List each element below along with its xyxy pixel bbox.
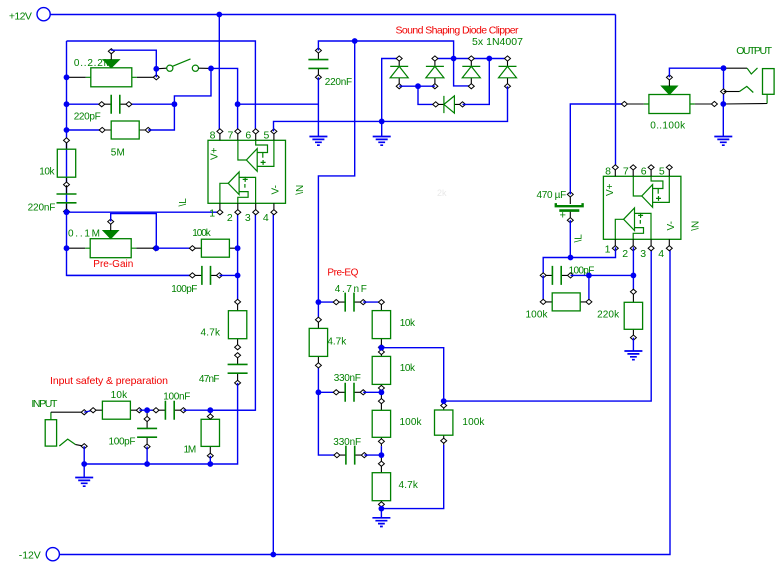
port -12V [19,548,60,562]
svg-text:100k: 100k [400,417,423,428]
capacitor 100nF input [153,392,190,420]
wire left rail [67,41,193,275]
jack INPUT [31,398,87,449]
node switch right [208,66,214,72]
node pin7 column [235,101,241,107]
wire mid node to 100k right branch [381,348,443,401]
wire 100k right drop [588,275,590,302]
resistor 4.7k pre-eq bottom [372,455,419,509]
wire 330nF1 to column [363,391,381,393]
wire 220nF bottom to pin7 node and ground [238,77,319,136]
svg-text:4.7nF: 4.7nF [335,284,367,295]
wire U2 pin2 down [632,247,634,292]
node U2 pin2 column [631,273,637,279]
wire pin1 net to 100pF left [543,258,570,276]
node feed on rail [451,56,457,62]
capacitor 4.7nF [318,284,366,312]
svg-text:47nF: 47nF [199,374,220,385]
wire clipper top rail [435,58,508,60]
port +12V [9,8,50,23]
wire 10k to node [139,409,156,411]
svg-text:Pre-EQ: Pre-EQ [327,268,358,279]
svg-text:4.7k: 4.7k [327,337,347,348]
ground G3 clipper [381,121,383,136]
svg-text:220k: 220k [597,310,620,321]
wire feed through to D3 bottom [454,59,472,86]
node pot1 right [153,66,159,72]
svg-text:330nF: 330nF [334,373,361,384]
node Pre-EQ top [316,299,322,305]
wire -12V rail [60,247,671,554]
potentiometer 0..1M Pre-Gain [67,219,159,270]
wire 100pF row right [571,274,634,276]
potentiometer 0..2.2M [66,49,159,87]
svg-text:10k: 10k [400,363,416,374]
node 330nF2 right [379,452,385,458]
resistor 220k [597,289,643,340]
svg-text:-12V: -12V [19,550,41,562]
node 220pF right [172,101,178,107]
node U2 pin1 net [568,255,574,261]
svg-text:10k: 10k [39,167,55,178]
resistor 100k feedback U2 [526,293,592,321]
wire 1M down [209,456,211,464]
svg-text:+12V: +12V [9,11,32,23]
svg-text:Sound Shaping Diode Clipper: Sound Shaping Diode Clipper [396,24,520,36]
ground G1 input [83,464,85,478]
svg-text:330nF: 330nF [333,437,361,448]
capacitor 100pF pre-gain [67,266,223,295]
wire D1 bottom to D2 bottom [399,85,435,87]
wire +12V to U2 pin 8 [615,15,617,167]
wire U1 pin5 to clipper ground node [274,121,382,131]
resistor 10k pre-eq 2 [372,348,416,393]
wire 5M right up to 220pF right [148,104,174,130]
svg-text:4.7k: 4.7k [399,480,419,491]
svg-text:100pF: 100pF [171,284,197,295]
node 100pF right [235,273,241,279]
svg-text:Input safety & preparation: Input safety & preparation [50,375,168,387]
wire 100k to 455 node [380,446,382,455]
wire D1 top to ground node [382,59,400,122]
capacitor 220pF [67,95,175,123]
svg-text:100nF: 100nF [163,392,190,403]
node ground rail left [81,461,87,467]
svg-text:OUTPUT: OUTPUT [736,45,772,57]
capacitor 47nF [199,353,248,386]
node output sleeve [720,101,726,107]
svg-text:+: + [560,210,566,222]
resistor 100k pre-gain [189,228,237,257]
svg-text:INPUT: INPUT [31,398,58,410]
svg-text:100k: 100k [526,310,549,321]
wire pot1 wiper to switch node [111,50,156,77]
svg-text:100k: 100k [192,228,212,239]
resistor 100k pre-eq column [372,392,422,446]
wire pot2 to 100k [156,247,192,249]
wire 330nF2 to column [364,454,381,456]
node 100k branch top [441,398,447,404]
ground G4 pre-eq [380,509,382,518]
node -12V U1 pin4 [270,552,276,558]
node pot2 right [153,245,159,251]
wire Pre-EQ left rail [318,302,337,455]
wire 100nF to 1M node [183,409,255,411]
resistor 4.7k mid column [201,299,247,350]
wire 100k left up [542,275,544,302]
op-amp U2 [573,165,701,260]
resistor 1M [184,410,220,458]
potentiometer 0..100k [621,75,717,132]
svg-text:10k: 10k [400,318,416,329]
diode D5 [433,96,466,113]
svg-text:0..100k: 0..100k [650,120,686,131]
node between 10k 10k [379,345,385,351]
wire pin1 net right [571,247,616,257]
svg-text:100pF: 100pF [109,437,136,448]
svg-text:220nF: 220nF [28,203,56,214]
resistor 5M [67,121,152,159]
wire down to D5 left [418,86,436,104]
node rail 5M row [64,127,70,133]
wire +12V rail [50,14,615,16]
diode D3 [462,56,480,89]
node clipper feed branch [352,38,358,44]
wire 470uF top to pot left [570,104,624,194]
node rail 220pF row [64,101,70,107]
svg-text:5x 1N4007: 5x 1N4007 [472,36,523,48]
capacitor 220nF mid [308,48,352,88]
node rail pin1 row [64,209,70,215]
node 100k right pin2 column [235,245,241,251]
node input RC [144,407,150,413]
svg-text:220nF: 220nF [325,77,352,88]
svg-text:2k: 2k [437,188,447,198]
svg-text:0..1M: 0..1M [68,229,100,240]
node clipper ground [379,119,385,125]
wire switch step down [174,68,211,104]
svg-text:10k: 10k [111,390,129,401]
wire tip node down to sleeve node [723,68,725,104]
ground G2 [309,137,327,146]
wire 100k branch bottom loop [381,445,443,509]
svg-text:1M: 1M [184,444,197,455]
wire jack ring down [83,446,85,464]
node ground rail 1M [207,461,213,467]
resistor 10k left column [39,138,75,187]
wire jack tip jog [84,410,93,412]
diode D1 [390,56,408,89]
ground G6 output [722,104,724,137]
wire 4.7nF to 10k#1 [363,301,381,303]
node 100k feedback right [586,273,592,279]
node 330nF1 left [316,389,322,395]
capacitor 100pF input [109,410,158,449]
op-amp U1 [178,129,306,224]
capacitor 220nF left [28,185,77,214]
wire D4 bottom to ground node [382,86,508,121]
wire 470uF bottom to U2 pin1 [569,220,571,257]
wire switch to U1 pin 7 [211,68,238,131]
wire U1 pin3 to input row [210,212,255,410]
diode D2 [426,56,444,89]
wire +12V to U1 pin 8 [218,15,220,132]
capacitor 470uF electrolytic [537,190,583,223]
wire 220nF top to clipper feed [318,41,453,59]
svg-text:220pF: 220pF [74,111,101,122]
resistor 10k pre-eq 1 [372,300,416,350]
resistor 4.7k pre-eq left [309,317,347,368]
ground G5 220k [632,338,634,351]
wire pot3 wiper to tip node [669,68,723,77]
wire U1 pin2 column [237,212,239,302]
jack OUTPUT [721,45,775,104]
wire branch down to Pre-EQ [318,41,354,302]
capacitor 100pF feedback U2 [540,265,594,285]
node rail pot row [64,74,70,80]
svg-text:5M: 5M [111,148,125,159]
svg-text:470 µF: 470 µF [537,190,567,201]
node between 10k2 100k [379,389,385,395]
node D5 left branch [415,83,421,89]
wire top loop to U1 pin 6 [67,41,256,131]
node 1M top [207,407,213,413]
wire 47nF down to ground rail [84,383,237,464]
capacitor 330nF second [333,437,367,464]
node pre-eq bottom [379,506,385,512]
node D5 branch on rail [486,56,492,62]
diode D4 [499,56,517,89]
capacitor 330nF first [318,373,366,402]
wire pre-eq out to U2 pin3 [444,247,652,401]
wire 100pF to pin2 column [219,274,237,276]
wire U1 pin1 row [67,211,220,213]
switch SW1 [156,59,211,71]
svg-text:100k: 100k [462,417,485,428]
wire D5 right up to rail [463,59,490,105]
node +12V junction [216,12,222,18]
node rail 0..1M row [64,245,70,251]
wire 100pF down [146,447,148,464]
resistor 100k branch [435,401,486,445]
wire pot2 wiper loop [111,214,157,249]
resistor 10k input [90,390,142,419]
svg-text:4.7k: 4.7k [201,328,222,339]
svg-text:Pre-Gain: Pre-Gain [93,259,133,270]
wire U1 pin4 to -12V rail [272,212,274,555]
node ground rail 100pF [144,461,150,467]
node output tip [721,65,727,71]
